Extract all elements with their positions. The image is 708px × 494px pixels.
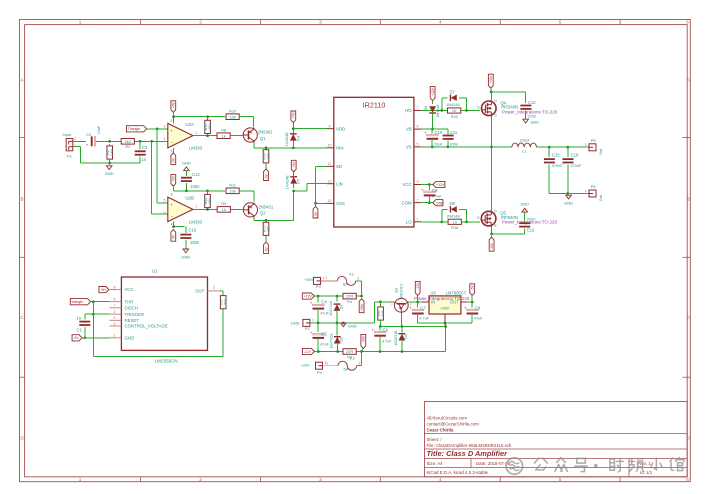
svg-text:100n: 100n <box>450 141 459 146</box>
wire C2 to R2 <box>96 140 121 142</box>
wire +30V to Q4 drain node <box>490 88 492 92</box>
svg-text:4: 4 <box>114 316 116 320</box>
resistor R18 10 <box>448 219 461 230</box>
power label +5V above U2A <box>171 101 176 113</box>
svg-text:1N4148: 1N4148 <box>446 102 460 107</box>
title block box <box>425 402 688 477</box>
svg-text:P6: P6 <box>591 184 597 189</box>
wire D8 branch down right <box>459 209 467 222</box>
svg-text:2: 2 <box>199 20 202 25</box>
svg-text:+12V: +12V <box>304 295 313 299</box>
svg-text:+: + <box>170 128 173 133</box>
svg-text:8: 8 <box>171 119 173 123</box>
svg-text:-5V: -5V <box>172 234 176 240</box>
resistor R16 10 <box>448 108 461 119</box>
junction SD VSS node <box>314 202 317 205</box>
global label Triangle <box>126 126 146 132</box>
wire R3 top to OUT <box>219 291 223 296</box>
fuse F1 6A <box>337 271 355 286</box>
svg-text:LM7805CT: LM7805CT <box>446 290 467 295</box>
svg-text:3: 3 <box>319 477 322 482</box>
global label +12V rail <box>302 293 314 299</box>
wire D7 branch up left <box>442 98 448 111</box>
ground symbol input GND <box>105 166 114 176</box>
svg-text:5: 5 <box>417 143 419 147</box>
svg-text:2: 2 <box>417 198 419 202</box>
svg-text:100n: 100n <box>190 184 200 189</box>
global label GND at COM <box>433 200 444 206</box>
junction D5 bottom LIN node <box>292 190 295 193</box>
svg-text:U2B: U2B <box>185 196 194 201</box>
svg-text:1: 1 <box>323 276 325 280</box>
wire P1 pin2 to C2 <box>73 140 86 142</box>
svg-text:1k8: 1k8 <box>381 311 385 317</box>
svg-text:D9: D9 <box>424 106 428 111</box>
svg-text:HIN: HIN <box>336 145 344 150</box>
svg-text:6: 6 <box>417 125 419 129</box>
svg-text:4.7uF: 4.7uF <box>419 317 429 321</box>
IC U3 LM7805CT regulator <box>422 290 468 323</box>
svg-text:VB: VB <box>406 127 412 132</box>
svg-text:2: 2 <box>199 477 202 482</box>
svg-text:BD241C: BD241C <box>400 283 404 298</box>
svg-text:GND: GND <box>291 320 300 325</box>
svg-text:HO: HO <box>405 108 412 113</box>
wire C11 top stub <box>447 129 449 134</box>
svg-text:L1: L1 <box>522 149 527 154</box>
svg-text:1: 1 <box>114 334 116 338</box>
svg-text:C6: C6 <box>383 328 389 333</box>
capacitor C18 470nF <box>563 159 574 162</box>
svg-text:C8: C8 <box>475 305 481 310</box>
svg-text:Title: Class D Amplifier: Title: Class D Amplifier <box>427 449 509 458</box>
wire C5 bottom stub <box>317 338 319 352</box>
capacitor C3 1n <box>135 151 146 154</box>
wire C16 top stub <box>185 227 187 233</box>
svg-text:VDD: VDD <box>336 126 345 131</box>
resistor R14 10k <box>262 150 270 163</box>
svg-text:D4: D4 <box>295 135 300 141</box>
wire D3 top stub <box>401 327 403 333</box>
svg-text:470nF: 470nF <box>552 163 564 168</box>
wire R6 top stub <box>379 302 381 307</box>
wire R8 to Q1 base <box>230 135 242 137</box>
capacitor C15 470nF <box>544 159 555 162</box>
wire VS down to Q5 drain <box>491 147 493 211</box>
svg-text:Out: Out <box>599 194 603 201</box>
svg-text:triangle: triangle <box>72 300 84 304</box>
wire VSS node to -5V label <box>315 203 317 206</box>
wire R2 to U2A inverting input <box>134 140 167 142</box>
555 OUT pin <box>195 286 219 293</box>
junction -30V feed node <box>360 350 363 353</box>
svg-text:10k: 10k <box>266 153 270 159</box>
svg-text:Id: 1/1: Id: 1/1 <box>640 470 653 475</box>
svg-text:+12V: +12V <box>436 183 445 187</box>
svg-text:1: 1 <box>585 143 587 147</box>
svg-text:-5V: -5V <box>264 246 268 252</box>
junction R6 bottom C6 top <box>379 325 382 328</box>
connector P6 Out- <box>589 184 596 197</box>
MOSFET Q4 IRF540N <box>477 99 558 118</box>
svg-text:D7: D7 <box>450 90 456 95</box>
svg-text:Q1: Q1 <box>260 136 266 141</box>
svg-text:Size: A4: Size: A4 <box>427 461 444 466</box>
svg-text:+30V: +30V <box>360 303 364 312</box>
svg-text:+: + <box>409 305 412 310</box>
wire C11 bottom to VS <box>447 141 449 147</box>
wire LIN node to IR2110 pin 12 <box>294 184 327 191</box>
svg-text:TRIGGER: TRIGGER <box>125 312 145 317</box>
wire P3 to F1 <box>321 280 338 282</box>
svg-text:Q3: Q3 <box>395 288 399 293</box>
wire C3 top stub <box>139 141 141 149</box>
diode D4 1N4148 <box>290 134 297 141</box>
svg-text:-30V: -30V <box>490 242 494 250</box>
junction COM C9 bottom <box>428 201 431 204</box>
svg-text:5: 5 <box>559 477 562 482</box>
junction input node R1 top <box>108 140 111 143</box>
zener diode D1 1N4742A <box>334 304 341 311</box>
svg-text:47uF: 47uF <box>320 342 329 346</box>
wire Q5 source to C13 <box>492 228 525 234</box>
svg-text:R18: R18 <box>451 226 458 230</box>
power label +5V above D4 <box>291 111 296 123</box>
svg-text:-12V: -12V <box>416 282 420 290</box>
svg-text:1k: 1k <box>222 207 226 212</box>
svg-text:GND: GND <box>182 160 191 165</box>
svg-text:D3: D3 <box>404 334 408 339</box>
svg-text:DISCH: DISCH <box>125 305 138 310</box>
svg-text:C15: C15 <box>552 152 560 157</box>
power label +12V above D9 <box>430 87 435 101</box>
capacitor C12 220n <box>520 106 531 109</box>
capacitor C5 47uF <box>310 330 324 338</box>
svg-text:R11: R11 <box>229 184 236 188</box>
junction Triangle to U2B branch <box>156 127 159 130</box>
wire R12 top stub <box>207 117 209 121</box>
wire D4 top to VDD net <box>292 123 294 134</box>
wire label stub U3 input <box>417 295 419 302</box>
svg-text:C3: C3 <box>142 145 148 150</box>
capacitor C13 220n <box>519 223 530 226</box>
svg-text:+: + <box>86 143 89 148</box>
wire -30V node to F2 <box>357 352 362 366</box>
junction C5 bottom <box>317 350 320 353</box>
wire emitter rail <box>380 326 445 328</box>
svg-text:AllAboutCircuits.com: AllAboutCircuits.com <box>427 416 468 421</box>
junction R13 top <box>206 189 209 192</box>
svg-text:D5: D5 <box>296 178 301 184</box>
capacitor C4 47uF <box>310 301 324 309</box>
svg-text:3: 3 <box>164 125 166 129</box>
svg-text:P5: P5 <box>591 138 597 143</box>
svg-text:22R: 22R <box>346 349 353 354</box>
svg-text:+5V: +5V <box>172 175 176 182</box>
junction C11 VS node <box>447 146 450 149</box>
wire P1 pin1 to ground net <box>73 147 110 163</box>
svg-text:10: 10 <box>452 220 457 225</box>
junction HO branch right <box>465 109 468 112</box>
junction C14 bottom on rail <box>185 189 188 192</box>
svg-text:3: 3 <box>213 286 215 290</box>
title block text <box>427 416 653 475</box>
wire C9 top stub <box>428 185 430 191</box>
svg-text:Sheet: /: Sheet: / <box>427 437 443 442</box>
junction HO branch left <box>440 109 443 112</box>
svg-text:4: 4 <box>171 149 173 153</box>
junction U3 GND pin node <box>444 322 447 325</box>
svg-text:+: + <box>170 202 173 207</box>
connector P2 GND <box>303 319 311 331</box>
wire -30V label stub <box>362 348 364 351</box>
connector P4 -30V <box>316 362 323 375</box>
fuse F2 6A <box>338 356 357 371</box>
svg-text:R4: R4 <box>347 300 352 304</box>
svg-text:5: 5 <box>559 20 562 25</box>
svg-text:+: + <box>464 305 467 310</box>
junction C18 top <box>566 146 569 149</box>
svg-text:C11: C11 <box>450 130 458 135</box>
svg-text:B: B <box>20 197 23 202</box>
wire COM to GND label <box>421 202 433 204</box>
wire D2 top stub <box>336 323 338 335</box>
transistor Q2 2N5401 <box>243 202 274 217</box>
svg-text:10: 10 <box>452 108 457 113</box>
junction D2 bottom <box>336 350 339 353</box>
svg-text:GND: GND <box>530 120 539 125</box>
wire R13 top stub <box>207 191 209 195</box>
wire Q3 collector to U3 input <box>409 301 423 303</box>
junction output ground node <box>566 192 569 195</box>
junction D4 bottom HIN node <box>292 146 295 149</box>
svg-text:+: + <box>310 301 313 306</box>
svg-text:LIN: LIN <box>336 181 343 186</box>
wire C18 top stub <box>567 147 569 157</box>
svg-text:+: + <box>421 187 424 192</box>
wire VS rail to L1 <box>421 146 512 148</box>
wire R1 top stub <box>109 144 111 146</box>
resistor R15 10k <box>262 222 270 235</box>
wire +5V rail to R10 <box>173 116 225 118</box>
resistor R4 <box>343 293 356 304</box>
capacitor C7 4.7uF <box>409 305 423 313</box>
svg-text:6A: 6A <box>344 366 349 371</box>
wire GND rail to Q3 base <box>310 302 394 323</box>
svg-text:+5V: +5V <box>292 112 296 119</box>
capacitor C1 1n timing <box>79 322 90 325</box>
svg-text:B: B <box>687 197 690 202</box>
svg-text:SD: SD <box>336 164 342 169</box>
wire Q3 emitter stub <box>400 312 402 326</box>
ground symbol below C12 <box>523 119 539 125</box>
svg-text:10uF: 10uF <box>97 125 101 134</box>
resistor R8 1k <box>217 129 230 139</box>
svg-text:220n: 220n <box>527 217 536 222</box>
wire THR to TRIGGER <box>92 302 94 315</box>
transistor Q1 2N5401 <box>243 128 274 143</box>
svg-text:R8: R8 <box>221 129 226 133</box>
junction U2B V- node <box>172 225 175 228</box>
wire R14 bottom stub <box>265 163 267 169</box>
svg-text:6: 6 <box>114 298 116 302</box>
svg-text:-5V: -5V <box>471 284 475 290</box>
wire -12V rail <box>314 351 445 353</box>
svg-text:GND: GND <box>520 202 529 207</box>
svg-text:VS: VS <box>406 145 412 150</box>
junction U2B output node <box>206 208 209 211</box>
wire C1 bottom to GND pin net <box>84 327 86 338</box>
svg-text:Power_Integrations:TO-220: Power_Integrations:TO-220 <box>414 296 470 301</box>
wire P4 to F2 <box>323 365 339 367</box>
wire C5 top stub <box>317 323 319 332</box>
resistor R10 10k <box>226 110 239 120</box>
svg-text:10k: 10k <box>229 188 235 193</box>
wire Triangle label to U2A noninverting input <box>147 128 168 130</box>
svg-text:GND: GND <box>436 201 444 205</box>
wire C8 top stub <box>471 302 473 308</box>
svg-text:LM393: LM393 <box>189 146 203 151</box>
resistor R5 <box>343 349 356 360</box>
resistor R12 pull-up <box>204 120 212 133</box>
svg-text:VCC: VCC <box>402 182 411 187</box>
svg-text:12: 12 <box>328 179 332 183</box>
svg-text:LM393: LM393 <box>189 219 203 224</box>
svg-text:U1: U1 <box>152 269 158 274</box>
capacitor C9 47uF <box>421 187 435 195</box>
junction emitter rail to ground column <box>444 325 447 328</box>
wire R1 bottom stub <box>109 159 111 163</box>
power label -5V below R15 <box>264 242 269 254</box>
capacitor C14 100n <box>181 178 192 181</box>
svg-text:GND: GND <box>181 254 190 259</box>
svg-text:6: 6 <box>686 20 689 25</box>
wire TRIGGER node to C1 <box>85 314 94 319</box>
svg-text:-5V: -5V <box>264 173 268 179</box>
svg-text:Triangle: Triangle <box>128 127 141 131</box>
wire C4 bottom to GND rail <box>317 309 319 323</box>
wire D1 top stub <box>336 296 338 301</box>
svg-text:470nF: 470nF <box>570 163 582 168</box>
junction Q4 source VS node <box>490 146 493 149</box>
junction R6 top Q3 base <box>379 300 382 303</box>
svg-text:R9: R9 <box>221 202 226 206</box>
svg-text:1n: 1n <box>142 157 147 162</box>
junction input to U2B branch <box>150 140 153 143</box>
svg-text:5: 5 <box>164 198 166 202</box>
wire R14 top stub <box>265 148 267 150</box>
svg-text:10k: 10k <box>208 124 212 130</box>
wire GND to C14 top <box>185 171 187 177</box>
svg-text:+5V: +5V <box>172 101 176 108</box>
junction Q3 emitter D3 top <box>401 325 404 328</box>
wire D4 bottom stub <box>292 140 294 148</box>
resistor R3 timing <box>220 296 228 309</box>
wire U2B V- to C16 <box>173 222 184 227</box>
svg-text:C16: C16 <box>189 227 197 232</box>
wire C8 bottom stub <box>471 314 473 324</box>
svg-text:GND: GND <box>564 201 573 206</box>
svg-text:1N4742A: 1N4742A <box>329 300 333 316</box>
wire VCC to +12V label <box>421 184 433 186</box>
power label -30V net <box>361 334 366 348</box>
svg-text:11: 11 <box>328 162 332 166</box>
wire VSS node to IR2110 pin 13 <box>316 202 327 204</box>
wire TRIGGER node to pin <box>93 313 109 315</box>
svg-text:6: 6 <box>164 211 166 215</box>
global label -5V at 555 GND <box>72 335 82 341</box>
svg-text:C9: C9 <box>432 188 438 193</box>
svg-text:6: 6 <box>686 477 689 482</box>
wire D8 branch up left <box>442 209 448 222</box>
junction +30V feed node <box>360 295 363 298</box>
wire C9 bottom to COM <box>428 195 430 202</box>
svg-text:6A: 6A <box>343 282 348 287</box>
frame row ticks and labels <box>20 78 691 441</box>
svg-text:Q2: Q2 <box>260 211 266 216</box>
svg-text:P4: P4 <box>317 370 323 375</box>
svg-text:GND: GND <box>105 171 114 176</box>
wire -5V label to GND pin <box>82 337 110 339</box>
resistor R11 10k <box>226 184 239 194</box>
svg-text:1k: 1k <box>221 133 225 138</box>
svg-text:4: 4 <box>171 223 173 227</box>
junction C4 top <box>317 295 320 298</box>
wire R13 bottom stub <box>207 208 209 210</box>
IC U4 IR2110 body <box>334 97 414 227</box>
junction C3 top <box>139 140 142 143</box>
junction R15 top <box>265 219 268 222</box>
svg-text:4: 4 <box>439 477 442 482</box>
wire R12 bottom stub <box>207 134 209 136</box>
power label -5V below U2A <box>171 153 176 165</box>
svg-text:C14: C14 <box>192 172 200 177</box>
svg-text:C13: C13 <box>527 228 535 233</box>
svg-text:−30V: −30V <box>300 363 310 368</box>
wire D1 bottom to GND rail <box>336 310 338 323</box>
svg-text:7: 7 <box>114 304 116 308</box>
junction U3 output <box>471 301 474 304</box>
wire C4 top stub <box>317 296 319 303</box>
svg-text:R16: R16 <box>451 115 458 119</box>
op-amp U2A LM393 <box>168 122 203 151</box>
svg-text:GND: GND <box>125 335 135 340</box>
resistor R1 body <box>106 146 114 159</box>
svg-text:C10: C10 <box>435 130 443 135</box>
wire C6 bottom stub <box>379 336 381 352</box>
svg-text:1N4148: 1N4148 <box>284 132 289 147</box>
transistor Q3 BD241C <box>394 298 409 312</box>
svg-text:7: 7 <box>195 205 197 209</box>
resistor R9 1k <box>217 202 230 212</box>
connector P5 Out+ <box>589 138 596 151</box>
svg-text:THR: THR <box>125 299 134 304</box>
svg-text:+5V: +5V <box>100 288 107 292</box>
junction C6 bottom <box>379 350 382 353</box>
MOSFET Q5 IRF540N <box>477 209 558 228</box>
svg-text:1: 1 <box>585 189 587 193</box>
wire label stub U3 output <box>471 295 473 302</box>
power label -5V below R14 <box>264 169 269 181</box>
wire R15 top stub <box>265 220 267 222</box>
svg-text:Out: Out <box>599 148 603 155</box>
wire U3 output node <box>468 301 472 303</box>
ground symbol below C16 <box>181 249 190 259</box>
svg-text:File: ClassDAmplifier-555LM393: File: ClassDAmplifier-555LM393IR2110.sch <box>427 443 512 448</box>
wire +12V to D9 anode <box>432 101 434 105</box>
global label triangle at THR <box>70 299 90 305</box>
wire C18 bottom stub <box>567 164 569 193</box>
